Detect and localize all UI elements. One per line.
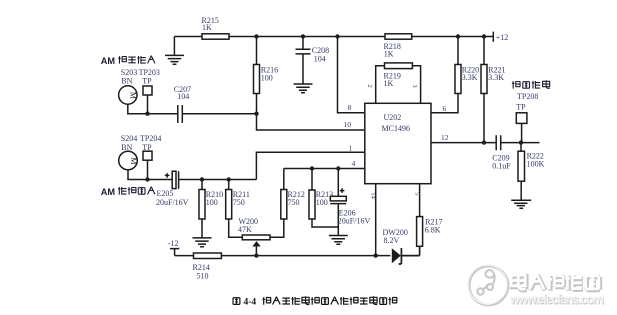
pin 5 label [413,192,420,195]
capacitor E206 electrolytic [330,169,346,236]
svg-text:1K: 1K [384,49,394,58]
pin 10 label [344,120,352,129]
svg-text:TP208: TP208 [517,92,538,101]
ground G1 under R215 left end [165,37,184,65]
svg-text:+12: +12 [496,33,509,42]
resistor R221 [481,37,487,143]
watermark url text [509,293,605,308]
pin 3 label [411,84,418,87]
resistor R217 [417,217,423,247]
ground G5 under R222 [511,200,531,208]
label R219 value [384,71,401,88]
capacitor C208 [296,37,311,84]
label R218 value [384,42,401,58]
svg-text:100K: 100K [527,160,545,169]
node junction TP204/audio wire [145,177,149,181]
wire audio to pin 1 [256,152,364,179]
svg-text:M: M [129,92,138,99]
wire S204 to E205 [128,160,172,179]
svg-text:E205: E205 [157,189,174,198]
node junction TP203/carrier wire [145,112,149,116]
wire rail to pin 8 [338,37,365,113]
label E206 value [338,209,371,226]
svg-text:100: 100 [316,198,328,207]
label R216 value [261,66,278,83]
resistor R210 [199,180,205,238]
svg-text:8.2V: 8.2V [384,236,400,245]
pin 6 label [443,104,447,113]
svg-text:14: 14 [369,192,376,199]
node junction rail/R221 [482,34,486,38]
ground G2 under C208 [294,84,313,93]
pin 12 label [441,133,449,142]
svg-text:6: 6 [443,104,447,113]
node junction carrier/R216 bottom [254,112,258,116]
power +12 tick and label [493,32,508,42]
label S204 TP204 [121,134,162,152]
ground G4 under E206 [329,236,348,245]
label C208 value [312,46,329,63]
connector S204 [119,151,138,170]
svg-text:AM: AM [101,56,116,66]
svg-text:20uF/16V: 20uF/16V [156,198,189,207]
test point TP204 [143,151,152,160]
label R221 value [488,65,505,82]
svg-text:1K: 1K [202,23,212,32]
node junction rail/pin8 riser [335,34,339,38]
power -12 label and tick [168,239,180,256]
node junction pin12/R221 [482,140,486,144]
label S203 TP203 [121,68,160,86]
svg-text:1K: 1K [384,79,394,88]
label R217 value [425,217,443,234]
node junction rail/R216 [254,34,258,38]
svg-text:750: 750 [288,198,300,207]
ground G3 under R210 [193,238,212,247]
capacitor E205 electrolytic [165,171,179,189]
resistor R218 [385,34,412,39]
svg-text:TP203: TP203 [139,68,160,77]
resistor R213 [309,169,338,228]
zener diode DW200 [392,246,420,264]
svg-text:TP: TP [142,77,152,86]
svg-text:47K: 47K [238,225,252,234]
label R212 value [288,190,305,207]
node junction rail/W200 wiper [254,253,258,257]
svg-text:750: 750 [233,198,245,207]
label C207 value [174,85,191,101]
svg-text:2: 2 [366,84,373,87]
label R213 value [316,190,333,207]
svg-text:0.1uF: 0.1uF [492,162,511,171]
svg-text:1: 1 [349,143,353,152]
capacitor C207 [178,105,183,123]
wire audio line E205 to pin1 riser [179,179,257,181]
svg-text:TP204: TP204 [140,134,161,143]
pin 2 label [366,84,373,87]
wire carrier node to pin 10 [257,114,365,130]
node junction rail/C208 [301,34,305,38]
connector S203 [119,86,138,104]
svg-text:10: 10 [344,120,352,129]
pin 4 label [352,159,356,168]
svg-text:M: M [129,157,138,164]
label TP208 [516,92,538,111]
label AM output (Chinese) [512,80,550,88]
node junction rail/pin14 [374,253,378,257]
resistor R222 [518,143,525,201]
svg-text:5: 5 [413,192,420,195]
wire bottom rail R214 to zener [221,255,390,257]
svg-text:S204: S204 [121,134,137,143]
label R214 value [193,263,210,280]
svg-text:TP: TP [516,102,526,111]
svg-text:20uF/16V: 20uF/16V [338,217,371,226]
watermark text elecfans (Chinese) [512,274,600,291]
test point TP208 [516,113,527,143]
caption figure title (Chinese) [233,296,397,307]
label W200 value [238,217,258,234]
node junction audio/R210 [200,177,204,181]
resistor R216 [254,37,260,114]
node junction rail/R220 [456,34,460,38]
label R222 value [527,152,545,169]
label R215 value [202,16,219,32]
svg-text:100: 100 [206,198,218,207]
resistor R215 [202,34,229,39]
pin 8 label [348,103,352,112]
svg-text:AM: AM [101,187,116,197]
svg-text:S203: S203 [121,68,137,77]
test point TP203 [143,86,152,95]
wire pin 4 line [284,168,365,170]
svg-text:www.elecfans.com: www.elecfans.com [509,293,604,307]
node junction pin4/E206 [336,166,340,170]
label C209 value [492,154,511,171]
svg-text:104: 104 [314,55,326,64]
svg-text:3.3K: 3.3K [488,73,504,82]
svg-text:-12: -12 [168,239,179,248]
op-amp U202 MC1496 chip body [365,103,431,183]
svg-text:12: 12 [441,133,449,142]
resistor R211 [226,180,243,238]
resistor R214 [194,253,222,259]
capacitor C209 [496,135,501,150]
label R210 value [206,190,223,207]
pin 1 label [349,143,353,152]
wire top bias rail from ground corner to +12 tick [174,36,493,38]
resistor R219 with stubs to pins 2,3 [376,63,421,103]
svg-text:BN: BN [121,143,132,152]
wire S203 to C207 [128,95,178,114]
svg-text:MC1496: MC1496 [382,124,410,133]
svg-text:3: 3 [411,84,418,87]
resistor R220 [455,37,461,94]
label AM carrier input (Chinese) [101,56,155,66]
svg-text:3.3K: 3.3K [462,73,478,82]
wire pin 12 output line [431,142,540,144]
svg-text:4-4: 4-4 [244,298,257,308]
wire -12 to R214 [175,255,194,257]
wire pin 6 to R220 [431,94,458,113]
wire C207 to R216 node [182,113,256,115]
node junction audio/R211 [227,177,231,181]
wire pin 5 to R217 [419,184,421,217]
potentiometer W200 [242,235,270,256]
label AM audio input (Chinese) [101,187,155,197]
label R220 value [462,65,479,82]
svg-text:6.8K: 6.8K [425,225,441,234]
svg-text:104: 104 [177,92,189,101]
svg-text:510: 510 [197,272,209,281]
node junction pin12/R222 TP208 [519,140,523,144]
svg-text:100: 100 [261,73,273,82]
svg-text:4: 4 [352,159,356,168]
resistor R212 [270,169,287,238]
label E205 value [156,189,189,207]
label R211 value [233,190,250,207]
svg-text:BN: BN [121,77,132,86]
pin 14 label [369,192,376,199]
node junction pin4/R213 [310,166,314,170]
svg-text:8: 8 [348,103,352,112]
label DW200 value [383,228,408,245]
svg-text:U202: U202 [384,113,402,122]
watermark elecfans logo [468,265,508,305]
wire pin 14 [375,184,377,256]
